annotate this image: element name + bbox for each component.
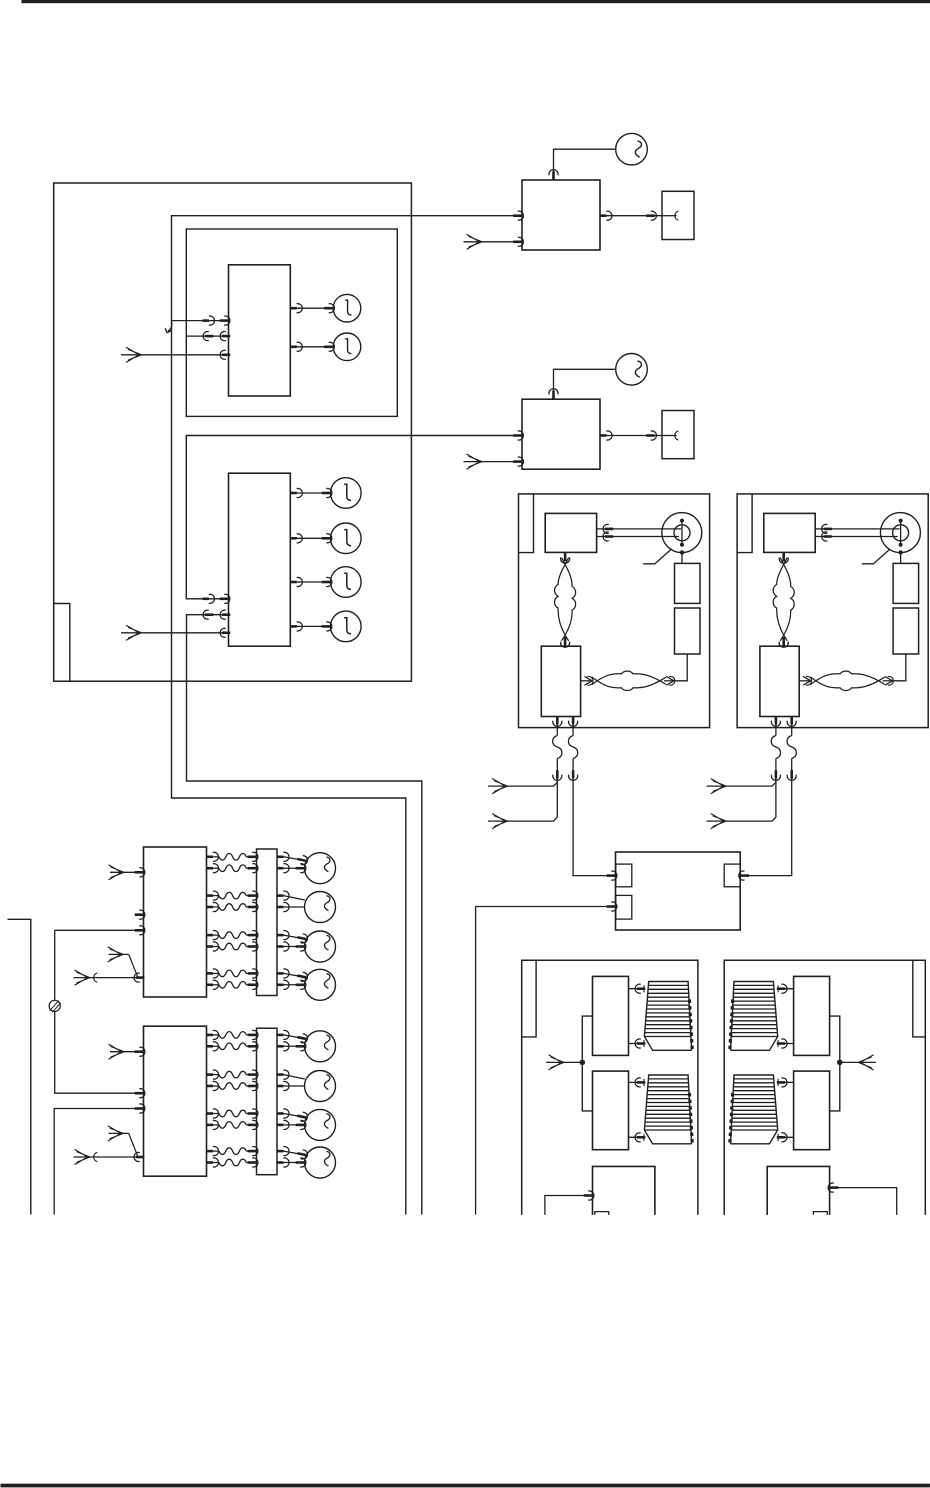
connector at lamp	[296, 971, 308, 982]
connector out	[277, 902, 289, 911]
wire driver to strip	[207, 906, 220, 908]
connector out	[277, 969, 289, 978]
tick	[643, 1040, 645, 1047]
connector in	[135, 926, 145, 935]
tick	[643, 985, 645, 992]
connector out	[277, 942, 289, 951]
box FS (sensor PCB, cut off)	[593, 1166, 655, 1215]
input arrow	[126, 347, 142, 362]
tick	[643, 1134, 645, 1141]
connector at lamp	[296, 1120, 306, 1129]
connector in	[248, 1030, 258, 1039]
indicator lamp L1	[333, 294, 361, 322]
input arrow	[492, 814, 508, 829]
connector out	[207, 891, 219, 900]
connector in	[248, 1120, 258, 1129]
arrow into controller	[607, 871, 617, 880]
connector port P1	[616, 864, 632, 887]
box U1 (control PCB 1)	[229, 265, 291, 396]
wire U2 to lamp	[290, 581, 330, 583]
box FD1 (heater drive 1)	[593, 976, 629, 1055]
cable twist	[568, 736, 577, 759]
arrow down	[569, 716, 578, 726]
glyph l	[345, 300, 351, 315]
connector out	[207, 1120, 219, 1129]
connector in	[248, 942, 258, 951]
wire unit2 to controller	[748, 830, 792, 876]
connector out	[600, 431, 612, 440]
wire to lamp	[284, 1085, 305, 1087]
connector in	[513, 457, 523, 466]
motor lever / sensor flag	[643, 549, 671, 564]
connector in	[248, 1081, 258, 1090]
connector	[635, 1078, 645, 1087]
connector in	[248, 969, 258, 978]
wire to lamp (diag)	[284, 1114, 307, 1118]
connector out	[290, 342, 302, 351]
exit wires through enclosure	[556, 717, 558, 736]
wire joins from input stubs	[488, 779, 557, 786]
connector port P2	[616, 895, 632, 919]
bus wire far-left	[8, 919, 31, 1214]
connector out	[277, 852, 289, 861]
wire to lamp	[284, 867, 305, 869]
connector at G1	[134, 973, 144, 982]
wire to lamp	[284, 1162, 305, 1164]
connector out	[290, 304, 302, 313]
input arrow	[108, 1126, 124, 1141]
lamp squiggle	[324, 1035, 330, 1050]
connector in	[513, 237, 523, 246]
cable arrow down	[561, 553, 570, 563]
connector out	[207, 1147, 219, 1156]
hook arrow (bus turns down)	[165, 321, 172, 333]
wire driver to strip	[207, 1045, 220, 1047]
motor M	[662, 513, 702, 553]
lamp squiggle	[324, 1114, 330, 1129]
connector out	[207, 969, 219, 978]
wire IF1 to AC source	[554, 149, 616, 180]
connector at lamp	[296, 1033, 308, 1044]
wire into FS right	[837, 1188, 897, 1215]
heater element H2	[644, 1075, 692, 1144]
box IF2 (interface PCB 2)	[522, 399, 600, 469]
input wire	[546, 1061, 582, 1063]
connector arrow	[603, 524, 613, 533]
lamp squiggle	[324, 1151, 330, 1166]
connector out	[207, 864, 219, 873]
terminal box T2	[662, 411, 694, 459]
connector at U1	[220, 350, 230, 359]
arrow up	[549, 170, 558, 180]
connector	[635, 1039, 645, 1048]
connector in	[248, 902, 258, 911]
connector	[635, 984, 645, 993]
connector out	[290, 534, 302, 543]
connector out	[277, 1158, 289, 1167]
tick	[643, 1079, 645, 1086]
wire into FS	[545, 1196, 585, 1215]
connector strip	[257, 849, 278, 996]
connector at U2	[220, 628, 230, 637]
input arrow	[108, 947, 124, 962]
input arrow	[549, 1055, 565, 1070]
connector out	[277, 891, 289, 900]
box CN (junction PCB)	[541, 646, 580, 716]
wire to lamp	[284, 946, 305, 948]
box MC (main controller)	[616, 852, 741, 930]
connector at lamp	[296, 1149, 308, 1160]
connector out	[207, 852, 219, 861]
connector in from bus	[513, 431, 523, 440]
input stub IF2	[464, 461, 523, 463]
lamp squiggle	[324, 1075, 330, 1090]
arrow down	[553, 716, 562, 726]
lamp G2-3	[305, 1109, 336, 1140]
lamp G2-1	[305, 1031, 336, 1062]
connector out	[207, 1070, 219, 1079]
connector in G2	[135, 1089, 145, 1098]
glyph l	[344, 484, 351, 500]
connector at U2	[220, 610, 230, 619]
lamp G1-3	[305, 931, 336, 962]
indicator lamp L6	[331, 611, 362, 642]
connector in	[322, 622, 332, 631]
arrow into controller	[607, 902, 617, 911]
AC source circle 2	[616, 354, 648, 386]
wire driver to strip	[207, 867, 220, 869]
connector out	[290, 488, 302, 497]
lamp G2-2	[305, 1071, 336, 1102]
cable arrow	[666, 676, 675, 685]
wire drive to heater	[629, 1136, 646, 1138]
input wire G1-e	[74, 977, 144, 979]
wire U2 port2 to bus L3	[187, 615, 422, 1215]
lamp squiggle	[324, 857, 330, 872]
connector at lamp	[296, 933, 308, 944]
connector at G2	[134, 1152, 144, 1161]
wire U1 to lamp	[290, 346, 333, 348]
wire from lower-left bus to controller	[476, 907, 608, 1215]
connector in	[135, 1047, 145, 1056]
cable twist	[553, 736, 562, 759]
connector out	[207, 1042, 219, 1051]
wire driver to strip	[207, 1150, 220, 1152]
input stub G2-a	[110, 1051, 144, 1053]
wire unit1 to controller	[573, 830, 608, 876]
connector out	[207, 1109, 219, 1118]
box U2 (control PCB 2)	[229, 473, 291, 646]
wire to lamp	[284, 906, 305, 908]
wire to lamp (diag)	[284, 973, 307, 977]
horizontal twisted cable to R2	[581, 680, 592, 682]
connector at lamp	[296, 980, 306, 989]
lamp G2-4	[305, 1147, 336, 1178]
frame notch tab	[54, 604, 70, 682]
indicator lamp L3	[331, 478, 362, 509]
input arrow	[75, 970, 91, 985]
connector in	[248, 1158, 258, 1167]
connector at lamp	[296, 864, 306, 873]
enclosure tab	[522, 960, 536, 1037]
connector at U1	[220, 332, 230, 341]
wire drive to heater	[629, 1043, 646, 1045]
glyph l	[344, 618, 351, 634]
connector out	[600, 211, 612, 220]
connector out	[277, 1070, 289, 1079]
input arrow	[492, 779, 508, 794]
connector at lamp	[296, 1111, 308, 1122]
connector mid	[203, 316, 215, 325]
connector in	[248, 931, 258, 940]
connector in	[248, 891, 258, 900]
connector out	[207, 1030, 219, 1039]
terminal stub	[662, 435, 677, 437]
box G1 (lamp driver)	[144, 847, 207, 997]
heater element H1	[644, 982, 692, 1051]
indicator lamp L5	[331, 567, 362, 598]
connector out	[277, 1042, 289, 1051]
input port G1-b (stub arrow)	[135, 910, 145, 919]
connector at lamp	[296, 1158, 306, 1167]
wire R2 down to cable	[675, 654, 688, 681]
enclosure tab	[913, 960, 926, 1037]
wire to lamp (diag)	[284, 857, 307, 861]
wire to lamp (diag)	[284, 1151, 307, 1155]
enclosure: drive unit	[519, 494, 710, 728]
connector out	[277, 1147, 289, 1156]
wire: sub unit 2 boundary / feed to interface box 2	[186, 436, 522, 599]
cable arrow down	[561, 637, 570, 647]
arrow down	[569, 770, 578, 780]
wire driver to strip	[207, 1085, 220, 1087]
connector in	[248, 1147, 258, 1156]
wire driver to strip	[207, 856, 220, 858]
connector out	[277, 864, 289, 873]
enclosure: sub unit 1	[186, 229, 397, 416]
input wire G2-e	[74, 1156, 144, 1158]
connector out	[207, 902, 219, 911]
connector arrow	[603, 532, 613, 541]
wire to lamp	[284, 984, 305, 986]
glyph l	[345, 339, 351, 354]
arrow into FS	[584, 1191, 594, 1200]
connector at lamp	[296, 1042, 306, 1051]
wire U1 port1 to bus	[172, 320, 229, 322]
wire to lamp (diag)	[284, 1035, 307, 1039]
lamp squiggle	[324, 935, 330, 950]
connector in	[324, 342, 334, 351]
lamp G1-1	[305, 853, 336, 884]
connector in	[248, 980, 258, 989]
wire driver to strip	[207, 1074, 220, 1076]
input stub G2-d	[109, 1132, 129, 1134]
wire driver to strip	[207, 946, 220, 948]
AC squiggle glyph	[635, 141, 641, 157]
cable arrow	[585, 676, 594, 685]
wires driver to motor	[597, 528, 681, 530]
page footer rule	[1, 1484, 930, 1487]
box R1 (sensor)	[675, 563, 701, 603]
inner connector (cut)	[595, 1212, 609, 1215]
indicator lamp L4	[331, 523, 362, 554]
terminal box T1	[662, 191, 694, 239]
connector out	[290, 622, 302, 631]
connector in U1	[220, 316, 230, 325]
connector out	[277, 980, 289, 989]
connector at lamp	[296, 855, 308, 866]
input arrow	[467, 234, 483, 249]
wire drive to heater	[629, 988, 646, 990]
wire driver to strip	[207, 1162, 220, 1164]
box DRV (driver PCB)	[545, 513, 596, 552]
input arrow	[467, 454, 483, 469]
lamp squiggle	[324, 896, 330, 911]
connector out	[207, 942, 219, 951]
connector in	[248, 1070, 258, 1079]
wire corner to G2 lower port	[54, 1109, 136, 1215]
connector in	[646, 211, 656, 220]
noise filter vertical wire	[55, 930, 136, 1093]
feed bracket	[582, 1016, 592, 1111]
connector out	[277, 931, 289, 940]
enclosure: main frame unit	[54, 183, 412, 681]
arrow down	[553, 770, 562, 780]
wire driver to strip	[207, 1113, 220, 1115]
connector in	[248, 1109, 258, 1118]
connector in	[248, 852, 258, 861]
lamp G1-4	[305, 969, 336, 1000]
enclosure: fuser unit L	[522, 960, 698, 1215]
connector out	[277, 1120, 289, 1129]
diagonal join	[129, 954, 138, 977]
wire U1 to lamp	[290, 307, 333, 309]
connector in	[322, 534, 332, 543]
page header bar	[22, 0, 930, 3]
connector out	[277, 1081, 289, 1090]
wire U1 port3 input	[121, 354, 229, 356]
wire driver to strip	[207, 1034, 220, 1036]
connector in	[135, 868, 145, 877]
wire driver to strip	[207, 895, 220, 897]
input stub IF1	[464, 241, 523, 243]
indicator lamp L2	[333, 333, 361, 361]
connector in	[322, 488, 332, 497]
motor shaft wire to box R1	[681, 553, 683, 564]
wire IF1 to terminal	[600, 215, 662, 217]
arrow into controller	[739, 871, 749, 880]
connector in	[646, 431, 656, 440]
connector mid	[203, 332, 213, 341]
wire to lamp (diag)	[284, 935, 307, 939]
enclosure tab	[519, 494, 534, 553]
wire drive to heater	[629, 1081, 646, 1083]
terminal stub	[662, 215, 677, 217]
connector out	[207, 1158, 219, 1167]
input arrow	[75, 1149, 91, 1164]
wire to lamp (diag)	[284, 1075, 305, 1079]
input arrow	[109, 1044, 125, 1059]
lamp G1-2	[305, 892, 336, 923]
box IF1 (interface PCB 1)	[522, 180, 600, 250]
connector out	[277, 1109, 289, 1118]
connector	[635, 1133, 645, 1142]
glyph l	[344, 573, 351, 589]
connector in	[324, 304, 334, 313]
lamp squiggle	[324, 974, 330, 989]
connector out	[207, 1081, 219, 1090]
wire driver to strip	[207, 1124, 220, 1126]
wire IF2 to AC source	[554, 369, 616, 399]
enclosure: fuser unit R	[724, 960, 925, 1215]
glyph l	[344, 530, 351, 546]
wire U2 to lamp	[290, 492, 330, 494]
connector at lamp	[296, 942, 306, 951]
wire down to controller	[572, 779, 574, 830]
wire to G1-c	[55, 929, 136, 931]
connector out	[207, 980, 219, 989]
bus wire L1	[172, 216, 523, 1215]
connector out	[290, 577, 302, 586]
wire to lamp	[284, 1045, 305, 1047]
input stub G1-d	[109, 953, 129, 955]
wire U2 to lamp	[290, 625, 330, 627]
AC squiggle glyph	[635, 361, 641, 377]
wire U1 port2	[186, 335, 228, 337]
diagonal join	[129, 1133, 138, 1156]
input stub G1-a	[110, 871, 144, 873]
connector out	[207, 931, 219, 940]
connector out	[277, 1030, 289, 1039]
box FD2 (heater drive 2)	[593, 1071, 629, 1150]
AC source circle 1	[616, 133, 648, 165]
arrow into FS	[828, 1183, 838, 1192]
wire driver to strip	[207, 934, 220, 936]
connector mid	[203, 594, 215, 603]
connector in from bus	[513, 211, 523, 220]
wire IF2 to terminal	[600, 435, 662, 437]
connector port P3	[724, 864, 740, 887]
noise filter symbol	[49, 1000, 60, 1011]
box R2 (sensor)	[675, 608, 701, 654]
wire driver to strip	[207, 972, 220, 974]
wire to lamp (diag)	[284, 896, 305, 900]
connector in	[322, 577, 332, 586]
input arrow	[109, 865, 125, 880]
connector in U2	[220, 594, 230, 603]
arrow up	[549, 389, 558, 399]
wire driver to strip	[207, 984, 220, 986]
connector mid	[203, 610, 213, 619]
wire U2 port3 input	[121, 632, 229, 634]
box G2 (lamp driver)	[144, 1026, 207, 1176]
connector in	[248, 864, 258, 873]
connector strip	[257, 1028, 278, 1175]
connector in	[248, 1042, 258, 1051]
connector in	[135, 1104, 145, 1113]
input arrow	[126, 625, 142, 640]
wire U2 to lamp	[290, 537, 330, 539]
wire to lamp	[284, 1124, 305, 1126]
